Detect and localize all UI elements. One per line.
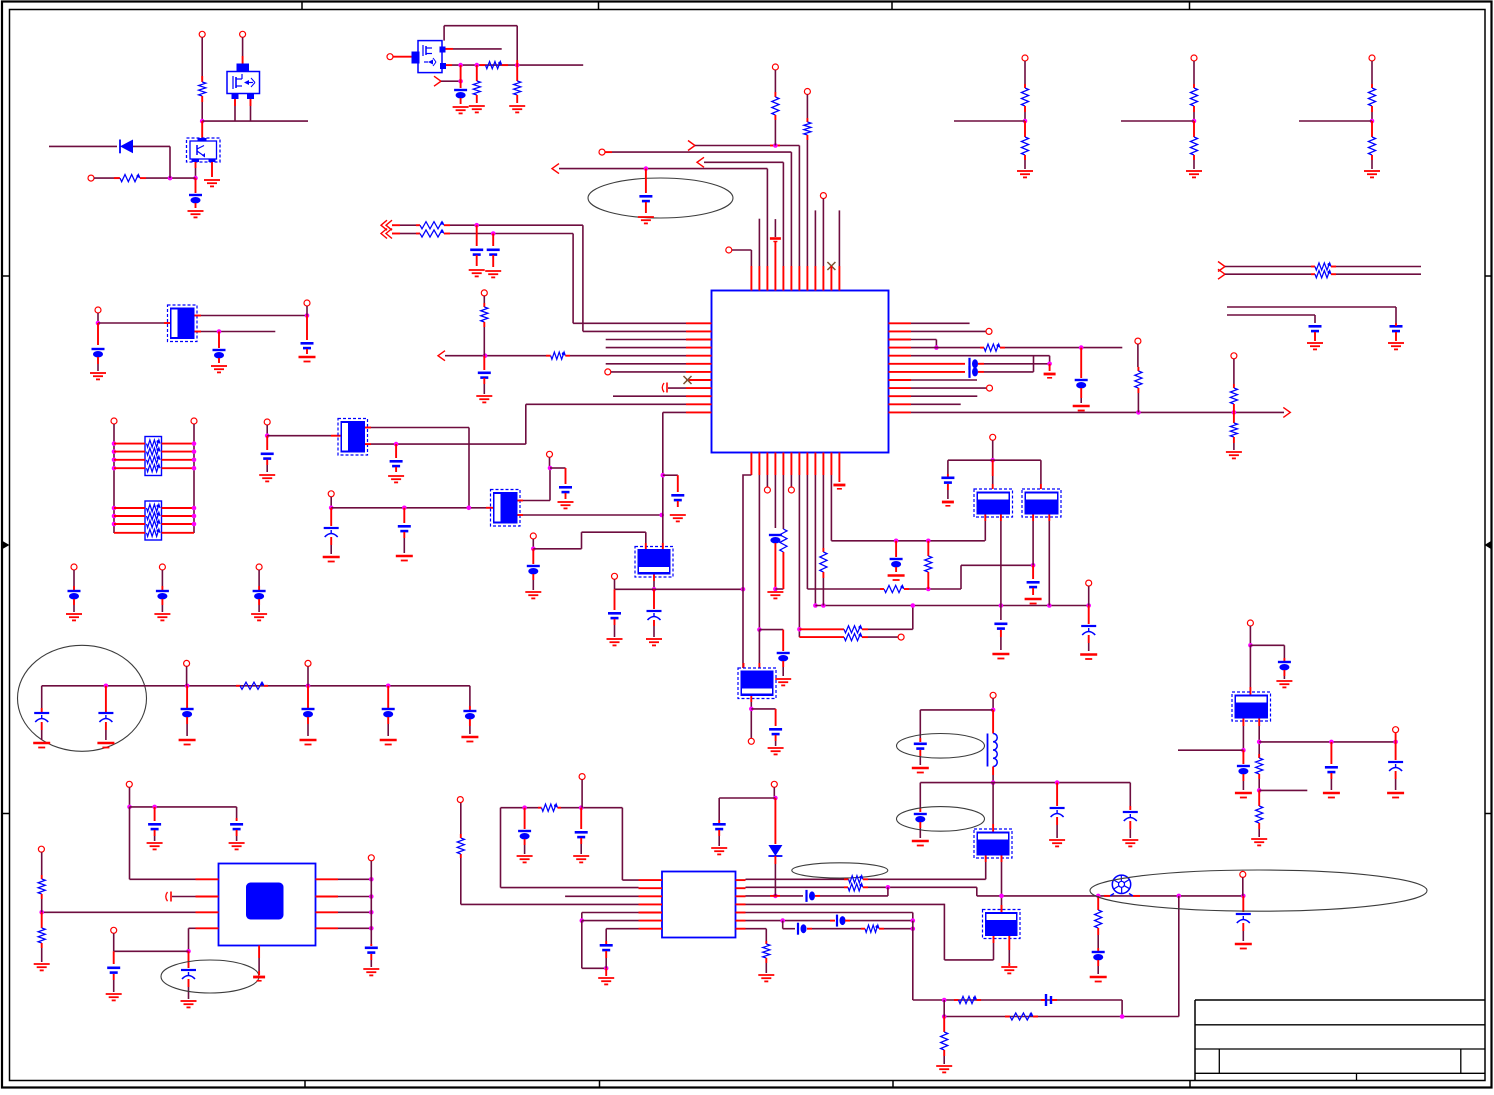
terminal r9 — [911, 387, 986, 389]
ground — [211, 365, 227, 367]
port arrow net3 — [552, 164, 559, 174]
IC U4 — [219, 864, 316, 946]
wire — [201, 37, 203, 80]
ground — [558, 501, 574, 503]
node AB — [773, 587, 778, 592]
port arrow row5 — [438, 351, 445, 361]
terminal pin10 — [820, 193, 826, 199]
T3 right pin gnd — [1008, 936, 1010, 950]
inductor L1 — [992, 710, 994, 734]
node A — [200, 119, 205, 124]
IC U1 top pins — [750, 266, 752, 291]
cap in ellipse 2 — [919, 783, 921, 808]
wire — [73, 570, 75, 586]
border zone ticks top — [301, 2, 303, 10]
ground — [453, 106, 469, 108]
terminal P24 — [368, 855, 374, 861]
wire — [258, 570, 260, 586]
wire row4 — [746, 903, 945, 905]
ground — [1090, 976, 1107, 979]
ground — [1307, 342, 1323, 344]
node W — [661, 473, 666, 478]
ground — [646, 638, 662, 640]
capacitor C29 — [994, 622, 1007, 625]
resistor R5 — [516, 60, 518, 81]
trimmer cap CV2 — [653, 589, 655, 609]
ground — [598, 977, 614, 979]
wire — [201, 121, 203, 138]
wire — [330, 497, 332, 508]
vertical to low rail — [912, 921, 914, 1000]
terminal P18 — [457, 797, 463, 803]
ground — [188, 210, 204, 212]
wire row3 stub — [606, 339, 686, 341]
capacitor C1 — [195, 178, 197, 193]
terminal P11 — [328, 491, 334, 497]
resistor R22 — [1315, 263, 1331, 270]
resistor pack RP2 — [145, 501, 162, 540]
wire — [266, 425, 268, 436]
ground — [1276, 680, 1292, 682]
bus r12 — [911, 411, 1284, 413]
wire gate bus — [446, 64, 452, 66]
T3 left pin loop — [993, 936, 995, 943]
wire — [400, 224, 416, 226]
capacitor C11 — [395, 444, 397, 458]
crystal X1 — [168, 305, 198, 342]
capacitor Cc — [68, 590, 81, 592]
wire X3 out1 — [518, 500, 524, 502]
big ellipse — [1090, 870, 1427, 911]
capacitor C14 — [677, 475, 679, 492]
wire X2 out2 — [365, 443, 371, 445]
wire row5 — [746, 912, 913, 914]
resistor R32 — [941, 1032, 948, 1050]
node BJ — [152, 805, 157, 810]
wire X2 out1 — [365, 427, 371, 429]
wire row1 loop — [622, 879, 638, 881]
wire — [559, 168, 767, 170]
terminal P22 — [38, 846, 44, 852]
divider column x485 — [481, 290, 487, 296]
crystal X2 — [338, 419, 368, 456]
resistor R29b — [763, 944, 770, 958]
cap column 113 — [113, 951, 115, 964]
rail to varcap — [1259, 741, 1395, 743]
capacitor C25 — [302, 708, 315, 710]
wire — [234, 99, 236, 106]
wire r8 — [911, 379, 977, 381]
divider column x1138 — [1135, 338, 1141, 344]
capacitor C33 — [600, 944, 613, 947]
resistor pack RP1 — [145, 437, 162, 476]
transformer T3 — [983, 910, 1021, 939]
capacitor C43 — [148, 823, 161, 826]
oscillator Y1 — [635, 547, 673, 578]
ground — [912, 767, 929, 770]
terminal P3 — [88, 175, 94, 181]
resistor R2 — [120, 175, 140, 182]
node R — [329, 506, 334, 511]
resistor column R8 — [772, 64, 778, 70]
wire — [161, 570, 163, 586]
T1 pin to rail — [984, 515, 986, 522]
terminal P8 — [111, 418, 117, 424]
node AD — [926, 587, 931, 592]
resistor R30 — [959, 996, 977, 1003]
capacitor C28 — [775, 709, 777, 726]
capacitor C45 — [107, 966, 120, 969]
terminal divider — [1191, 55, 1197, 61]
resistor R7 — [420, 230, 444, 237]
terminal pin b6 — [790, 475, 792, 487]
wire row10 stub — [613, 395, 686, 397]
ground — [229, 842, 245, 844]
wire row7 resistor to ground — [746, 928, 767, 930]
ground — [942, 501, 954, 504]
resistor R18 — [984, 344, 1000, 351]
wire r5 — [911, 355, 1050, 357]
wire pin b11 rail — [830, 475, 832, 541]
circle annotation — [18, 645, 147, 751]
trimmer CV9 — [1388, 761, 1403, 763]
wire row3 divider — [42, 911, 196, 913]
ground — [1226, 451, 1242, 453]
capacitor C6 — [478, 371, 491, 374]
ground — [253, 976, 265, 979]
terminal divider — [1369, 55, 1375, 61]
capacitor C41 — [1237, 765, 1250, 767]
Q3 to R row1 — [985, 856, 987, 863]
wire — [242, 37, 244, 56]
capacitor C31 — [575, 831, 588, 834]
terminal P5 — [599, 149, 605, 155]
resistor R24 — [240, 682, 264, 689]
ground — [517, 855, 533, 857]
low rail 2 — [944, 1016, 1179, 1018]
ground — [1388, 342, 1404, 344]
stub pin2 — [758, 219, 760, 266]
ground — [1049, 839, 1065, 841]
T2 pin down — [1032, 515, 1034, 522]
resistor R16 pin b10 — [822, 475, 824, 548]
ground — [607, 638, 623, 640]
ground — [476, 395, 492, 397]
ground — [912, 840, 929, 843]
resistor Rb — [1368, 137, 1375, 155]
ground — [34, 963, 50, 965]
node AX — [773, 894, 778, 899]
resistor R33 — [1095, 910, 1102, 928]
divider column x1234 — [1231, 353, 1237, 359]
wire row12 — [663, 411, 686, 413]
node E — [475, 63, 480, 68]
IC U1 left pins — [686, 322, 712, 324]
resistor R27 — [849, 876, 863, 883]
port arrow net1 — [688, 141, 695, 151]
cap column 236 — [236, 807, 238, 818]
capacitor C32 — [518, 830, 531, 832]
resistor R6 — [420, 222, 444, 229]
node BB — [911, 926, 916, 931]
node BL — [186, 949, 191, 954]
resistor R13 — [844, 626, 862, 633]
capacitor C20 — [1080, 348, 1082, 378]
stub pin9 — [814, 210, 816, 266]
capacitor C26 — [382, 708, 395, 710]
wire pin b7 loop — [798, 475, 800, 637]
node H — [474, 223, 479, 228]
capacitor C30 — [1027, 581, 1040, 584]
Y2 output — [750, 696, 752, 702]
capacitor C19 — [895, 541, 897, 557]
opto transistor U2 — [187, 138, 221, 162]
node K — [644, 166, 649, 171]
node AH — [926, 539, 931, 544]
wire to U4 pin1 — [129, 807, 131, 879]
ground — [1122, 839, 1138, 841]
terminal row7 — [605, 369, 611, 375]
wire pin b2 — [758, 475, 760, 630]
ground — [509, 105, 525, 107]
node U — [548, 466, 553, 471]
power bus y605 — [815, 605, 1088, 607]
IC U1 bottom pins — [750, 453, 752, 476]
ground — [251, 613, 267, 615]
ground — [1364, 170, 1380, 172]
node S — [402, 506, 407, 511]
title block — [1195, 999, 1485, 1001]
wire — [94, 177, 119, 179]
resistor R1 — [199, 82, 206, 96]
trimmer cap CV1 — [330, 508, 332, 526]
terminal column 1243 — [1240, 871, 1246, 877]
wire row11 from crystal X2 — [526, 403, 686, 405]
ground — [259, 474, 275, 476]
resistor Rb — [1190, 137, 1197, 155]
resistor R37 — [38, 928, 45, 943]
wire row6 stub — [606, 363, 686, 365]
resistor R35 — [1256, 806, 1263, 823]
ground — [711, 847, 727, 849]
capacitor C13 — [565, 468, 567, 484]
wire — [1249, 626, 1251, 645]
node AF — [813, 603, 818, 608]
trimmer CV4 — [105, 686, 107, 712]
node Z — [741, 587, 746, 592]
wire — [202, 120, 308, 122]
terminal + cap column 308 — [305, 660, 311, 666]
terminal P23 — [111, 927, 117, 933]
wire r4 — [911, 347, 980, 349]
terminal P16 — [990, 434, 996, 440]
power rail — [42, 685, 470, 687]
node BG — [1257, 740, 1262, 745]
capacitor C27 — [463, 710, 476, 712]
node BF — [1241, 748, 1246, 753]
no-connect row8 — [684, 376, 692, 384]
bus arrow pair B — [381, 229, 387, 239]
T2 pin2 down — [1048, 515, 1050, 522]
wire — [605, 151, 612, 153]
ground — [1025, 598, 1042, 601]
ground — [767, 591, 783, 593]
node AR — [1055, 780, 1060, 785]
wire row1 — [746, 878, 845, 880]
RC column 1098 — [1097, 896, 1099, 910]
wire top — [129, 787, 131, 807]
terminal P15 — [748, 738, 754, 744]
capacitor C8 — [306, 316, 308, 341]
cap column 719 — [718, 798, 720, 820]
ground — [179, 739, 196, 742]
capacitor C5 — [645, 169, 647, 193]
node D — [458, 63, 463, 68]
wire — [211, 162, 213, 177]
node AA — [757, 627, 762, 632]
ground — [1323, 792, 1340, 795]
capacitor C44 — [230, 823, 243, 826]
wire — [1193, 61, 1195, 84]
ground — [670, 514, 686, 516]
ground — [1235, 792, 1252, 795]
ground — [1235, 943, 1252, 946]
node L — [483, 353, 488, 358]
node AQ — [991, 780, 996, 785]
resistor R34 — [1256, 758, 1263, 774]
nc cap row2 — [170, 892, 172, 902]
ground — [1073, 405, 1090, 408]
node Q — [394, 442, 399, 447]
border zone ticks bottom — [304, 1081, 306, 1088]
IC U1 — [712, 291, 889, 453]
wire — [992, 440, 994, 460]
resistor R19 — [1135, 371, 1142, 388]
cap column 388 — [387, 686, 389, 708]
resistor R10 — [551, 352, 566, 359]
ground — [1080, 653, 1097, 656]
ground flag pin b12 — [838, 475, 840, 482]
capacitor C9 — [218, 332, 220, 349]
wire r1 — [911, 322, 970, 324]
transformer T2 — [1022, 489, 1061, 517]
trimmer CV8 — [1236, 913, 1251, 915]
border center arrow left — [3, 541, 10, 549]
ground — [181, 1000, 197, 1002]
capacitor C4 — [492, 234, 494, 247]
wire row2 — [746, 886, 845, 888]
node AT — [522, 805, 527, 810]
wire to IC row1 — [572, 234, 574, 324]
wire to IC row2 — [582, 225, 584, 331]
capacitor C16 — [614, 589, 616, 610]
wire X3 out2 — [518, 514, 524, 516]
node F — [515, 63, 520, 68]
resistor R14 — [844, 634, 862, 641]
resistor column 1259 — [1258, 754, 1260, 758]
ground — [1044, 373, 1056, 376]
bus arrow D — [1218, 269, 1225, 279]
resistor R15 — [884, 585, 904, 592]
IC U2 — [662, 872, 736, 938]
ground — [90, 372, 106, 374]
node AZ — [780, 918, 785, 923]
ground — [33, 742, 50, 745]
no-connect pin11 — [827, 262, 835, 270]
terminal pin b3 — [766, 475, 768, 487]
IC U2 left pins — [639, 879, 663, 881]
node AO — [990, 458, 995, 463]
wire cap pair lower — [1227, 314, 1315, 316]
node AC — [797, 627, 802, 632]
capacitor C46 — [365, 946, 378, 949]
node T2 — [467, 506, 472, 511]
capacitor C18 column pin b4 — [774, 475, 776, 528]
wire pin b1 to Y2 — [743, 475, 751, 668]
ground — [204, 179, 220, 181]
port arrow net2 — [697, 157, 704, 167]
cap column 154 — [154, 807, 156, 821]
ground — [1186, 170, 1202, 172]
ground — [1017, 170, 1033, 172]
crystal X3 — [491, 490, 521, 527]
bus arrow pair A — [381, 220, 387, 230]
wire to boxB — [1040, 460, 1042, 484]
motor rail — [977, 895, 1244, 897]
ground — [1387, 792, 1404, 795]
diode D2 — [774, 798, 776, 844]
resistor R12 column pin b5 — [782, 475, 784, 529]
converter U3 — [1232, 692, 1271, 721]
terminal cap column — [256, 564, 262, 570]
capacitor C23 — [1309, 325, 1322, 328]
resistor R26 — [457, 838, 464, 854]
wire r3 — [911, 339, 936, 341]
node AN — [749, 707, 754, 712]
terminal cap column — [159, 564, 165, 570]
ground — [154, 613, 170, 615]
node BD — [1120, 1014, 1125, 1019]
terminal P6 — [95, 307, 101, 313]
wire — [133, 145, 170, 147]
terminal P9 — [191, 418, 197, 424]
resistor Ra — [1190, 88, 1197, 106]
resistor column R9 — [804, 89, 810, 95]
wire — [704, 161, 783, 163]
resistor R23 — [1315, 271, 1331, 278]
wire to boxC — [1249, 645, 1251, 687]
wire — [195, 162, 197, 168]
right rail — [193, 424, 195, 533]
IC U4 right pins — [316, 878, 339, 880]
trimmer CV5 — [1081, 625, 1096, 627]
ground — [485, 270, 501, 272]
node Y — [652, 587, 657, 592]
node AG — [894, 539, 899, 544]
T1 pin2 down — [1000, 515, 1002, 522]
terminal column 582 — [579, 774, 585, 780]
node BA — [911, 918, 916, 923]
capacitor C36 — [836, 915, 838, 927]
wire — [1225, 266, 1311, 268]
wire — [1121, 120, 1194, 122]
capacitor C34 — [805, 890, 807, 902]
cap column 371 — [370, 944, 372, 946]
motor M1 — [1112, 875, 1130, 893]
ground — [469, 269, 485, 271]
border center arrow right — [1485, 541, 1492, 549]
ground — [888, 574, 905, 577]
